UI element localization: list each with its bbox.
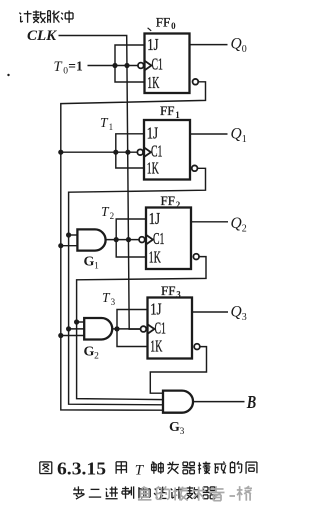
svg-text:2: 2: [176, 200, 181, 210]
svg-text:1J: 1J: [147, 124, 158, 143]
svg-text:2: 2: [110, 211, 115, 221]
svg-text:=1: =1: [68, 59, 83, 74]
svg-text:2: 2: [242, 223, 247, 234]
svg-text:2: 2: [94, 351, 99, 361]
svg-text:FF: FF: [160, 103, 174, 118]
svg-text:3: 3: [176, 290, 181, 300]
svg-text:Q: Q: [231, 215, 242, 232]
svg-text:C1: C1: [155, 319, 166, 338]
svg-text:0: 0: [171, 21, 176, 31]
svg-text:1K: 1K: [150, 337, 162, 356]
svg-text:6.3.15: 6.3.15: [57, 459, 106, 479]
svg-text:1: 1: [175, 110, 180, 120]
svg-text:T: T: [54, 59, 63, 75]
svg-text:C1: C1: [153, 229, 164, 248]
svg-text:1J: 1J: [147, 35, 158, 54]
svg-text:G: G: [84, 344, 95, 359]
svg-text:3: 3: [111, 297, 116, 307]
svg-text:1: 1: [94, 262, 99, 272]
svg-text:G: G: [169, 420, 180, 435]
svg-text:1K: 1K: [149, 247, 161, 266]
svg-text:FF: FF: [161, 283, 175, 298]
svg-text:1: 1: [242, 134, 247, 145]
svg-text:B: B: [246, 392, 256, 412]
svg-text:G: G: [84, 255, 95, 270]
svg-text:3: 3: [242, 312, 247, 323]
svg-text:FF: FF: [156, 14, 170, 29]
svg-text:1: 1: [109, 122, 114, 132]
svg-text:Q: Q: [231, 304, 242, 321]
svg-text:1K: 1K: [147, 73, 159, 92]
svg-text:C1: C1: [152, 55, 163, 74]
svg-text:FF: FF: [161, 193, 175, 208]
svg-text:1J: 1J: [149, 209, 160, 228]
svg-text:Q: Q: [231, 36, 242, 53]
svg-text:CLK: CLK: [27, 28, 57, 44]
svg-text:0: 0: [242, 44, 247, 55]
svg-text:1K: 1K: [147, 159, 159, 178]
svg-text:3: 3: [180, 427, 185, 437]
svg-text:1J: 1J: [150, 300, 161, 319]
svg-text:Q: Q: [231, 126, 242, 143]
